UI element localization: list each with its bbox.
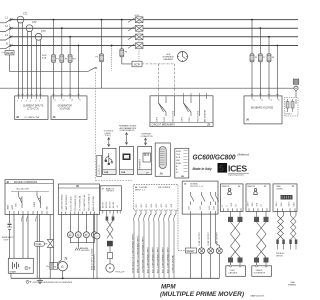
svg-text:MPM: MPM bbox=[161, 284, 176, 291]
wire busbar N bbox=[276, 46, 278, 96]
svg-text:JK: JK bbox=[76, 185, 79, 188]
wire optional boundary dash horizontal bbox=[96, 180, 134, 182]
incomer N bbox=[0, 46, 11, 49]
svg-text:INP.1: INP.1 bbox=[136, 204, 138, 208]
svg-text:INPUTS: INPUTS bbox=[107, 191, 115, 193]
relay contact MCB bbox=[184, 99, 200, 116]
arrow USB device bbox=[108, 138, 110, 147]
svg-text:L2: L2 bbox=[63, 100, 65, 102]
twisted pair pmcb left bbox=[276, 212, 285, 258]
RESET box bbox=[178, 210, 197, 278]
incomer L2 bbox=[0, 28, 11, 31]
svg-text:L1: L1 bbox=[253, 100, 255, 102]
MECB breaker box bbox=[2, 24, 15, 55]
wire F5 drop to SCR bbox=[122, 20, 132, 64]
node L1 tap F5 bbox=[121, 19, 123, 21]
svg-text:DIGITAL: DIGITAL bbox=[140, 186, 149, 189]
generator G circle bbox=[58, 258, 67, 279]
svg-text:0.5A: 0.5A bbox=[42, 56, 47, 59]
svg-text:STOP: STOP bbox=[4, 239, 10, 241]
wire sensor drops bbox=[70, 215, 94, 232]
svg-text:G: G bbox=[61, 265, 64, 269]
svg-text:C.T. RATIO /5A: C.T. RATIO /5A bbox=[24, 116, 39, 119]
wire busbar L1 bbox=[251, 20, 253, 96]
svg-text:L2: L2 bbox=[261, 100, 263, 102]
svg-text:*: * bbox=[27, 281, 28, 284]
aux supply tap box bbox=[293, 79, 299, 84]
svg-text:CT1: CT1 bbox=[23, 13, 28, 16]
arrow ethernet bbox=[144, 138, 146, 145]
svg-text:ENGINE COMMANDS: ENGINE COMMANDS bbox=[14, 181, 38, 184]
svg-text:AUX. CONFIGURABLE INPUT: AUX. CONFIGURABLE INPUT bbox=[156, 246, 159, 273]
svg-text:RS232: RS232 bbox=[176, 151, 181, 153]
connector J5 DIGITAL OUTPUT box bbox=[182, 181, 219, 214]
node L2 tap busbar bbox=[260, 27, 262, 29]
connector J1 thin supply box bbox=[97, 155, 102, 176]
fuse F8 bbox=[267, 54, 271, 62]
svg-text:START: START bbox=[33, 202, 36, 207]
current transformer CT1 bbox=[17, 13, 28, 23]
svg-text:VOLTAGE: VOLTAGE bbox=[60, 107, 71, 110]
svg-text:MCB CLOSED: MCB CLOSED bbox=[197, 110, 199, 122]
svg-text:ICES: ICES bbox=[228, 163, 247, 173]
svg-text:REMOTE START (CONFIGURABLE INP: REMOTE START (CONFIGURABLE INPUT) bbox=[136, 235, 139, 273]
wire F4 drop bbox=[101, 20, 103, 89]
engine ground symbol bbox=[75, 248, 81, 251]
node L1 tap F4 bbox=[101, 19, 103, 21]
wire gen V N bbox=[78, 46, 80, 96]
svg-text:CONNECTION: CONNECTION bbox=[141, 136, 154, 138]
svg-text:*: * bbox=[26, 266, 27, 270]
label optional note bbox=[26, 280, 73, 284]
pin ticks row1 boxes bbox=[17, 93, 278, 96]
svg-text:CONFIGURATION: CONFIGURATION bbox=[120, 129, 136, 132]
current transformer CT2 bbox=[26, 21, 37, 31]
wire gen V L1 bbox=[53, 20, 55, 96]
logo SICES bbox=[218, 163, 250, 177]
wire linkage dash bbox=[111, 46, 113, 71]
svg-text:BREAKER: BREAKER bbox=[164, 58, 174, 61]
svg-text:FUEL: FUEL bbox=[36, 243, 43, 246]
node N dot linkage bbox=[111, 45, 113, 47]
wire analog input drop bbox=[90, 214, 93, 279]
pickup chain bbox=[106, 214, 125, 274]
svg-text:T: T bbox=[29, 267, 31, 271]
svg-text:L1: L1 bbox=[54, 100, 56, 102]
connector JX CAN J1939 box bbox=[273, 184, 297, 212]
connector J7 ANALOG INPUTS box bbox=[100, 186, 121, 214]
fuse F5 bbox=[120, 49, 124, 57]
svg-text:1: 1 bbox=[17, 101, 18, 103]
ground symbol main bbox=[37, 278, 43, 283]
svg-text:FUEL LEVEL ANALOG: FUEL LEVEL ANALOG bbox=[87, 193, 90, 211]
wire gen V L2 bbox=[61, 28, 63, 96]
node N tap busbar bbox=[276, 45, 278, 47]
svg-text:COM 1: COM 1 bbox=[164, 117, 166, 122]
svg-text:SCR: SCR bbox=[134, 63, 141, 67]
sensor senders circles bbox=[67, 232, 97, 238]
svg-text:INP.2: INP.2 bbox=[141, 204, 143, 208]
svg-text:DIGITAL: DIGITAL bbox=[190, 183, 199, 186]
fuse F1 bbox=[51, 55, 55, 63]
wire SCR dashdot to breaker coils bbox=[142, 63, 174, 65]
svg-text:SUPPLY J1: SUPPLY J1 bbox=[99, 165, 101, 174]
connector JXA USB host box bbox=[120, 147, 134, 175]
svg-text:CURRENT INPUTS: CURRENT INPUTS bbox=[23, 106, 44, 108]
svg-text:MODE SELECTOR (CONFIGURABLE IN: MODE SELECTOR (CONFIGURABLE INPUT) bbox=[131, 233, 134, 273]
svg-text:UNIT: UNIT bbox=[230, 270, 235, 272]
svg-text:(CT1÷CT3): (CT1÷CT3) bbox=[27, 107, 39, 110]
svg-text:CIRCUIT BREAKERS: CIRCUIT BREAKERS bbox=[152, 124, 176, 127]
rotated digital input labels bbox=[131, 233, 174, 273]
svg-text:OUT1: OUT1 bbox=[189, 206, 191, 210]
connector JA serial DB9 box bbox=[155, 143, 170, 176]
svg-text:PORT): PORT) bbox=[105, 135, 111, 137]
connector J6 BUSBARS VOLTAGE box bbox=[244, 96, 282, 124]
wire MECB to rail bbox=[9, 55, 11, 71]
emergency stop button bbox=[2, 215, 14, 259]
svg-text:Made in Italy: Made in Italy bbox=[193, 167, 212, 171]
svg-text:CONF. OUTPUT: CONF. OUTPUT bbox=[208, 231, 210, 246]
svg-text:ETHERNET: ETHERNET bbox=[140, 158, 142, 170]
svg-text:OIL PRESSURE (CONFIGURABLE INP: OIL PRESSURE (CONFIGURABLE INPUT) bbox=[141, 236, 144, 273]
starter motor M box bbox=[46, 215, 58, 270]
wire long rail y88 bbox=[0, 87, 294, 89]
svg-text:EAAP1020XXX: EAAP1020XXX bbox=[251, 295, 265, 298]
svg-text:OPTIONAL DEPENDING ON ECU FEAT: OPTIONAL DEPENDING ON ECU FEATURES bbox=[33, 281, 73, 284]
battery supply dashed box bbox=[284, 98, 298, 117]
switch AY on rail bbox=[88, 68, 96, 72]
svg-text:OIL PRESSURE AN.: OIL PRESSURE AN. bbox=[78, 195, 81, 211]
fuse F4 bbox=[99, 54, 103, 62]
label ETHERNET CONNECTION bbox=[141, 134, 154, 138]
svg-text:GROUND: GROUND bbox=[81, 250, 90, 252]
svg-text:COMMON GROUND: COMMON GROUND bbox=[172, 255, 174, 273]
connector JY ethernet box bbox=[138, 147, 152, 175]
svg-text:OUT2: OUT2 bbox=[200, 206, 202, 210]
fuse F6 bbox=[250, 54, 254, 62]
wire plug to battery box bbox=[295, 90, 297, 97]
twisted pair pmcb right bbox=[288, 212, 297, 287]
connector J2 ENGINE COMMANDS box bbox=[5, 180, 53, 215]
fuse F3 bbox=[68, 55, 72, 63]
svg-text:N: N bbox=[6, 42, 8, 46]
svg-text:REMOTE: REMOTE bbox=[222, 186, 230, 188]
wires CT secondaries to J8 bbox=[19, 23, 41, 96]
svg-text:5: 5 bbox=[35, 101, 36, 103]
svg-text:JXA: JXA bbox=[121, 171, 126, 174]
svg-text:OUT3: OUT3 bbox=[209, 206, 211, 210]
svg-text:SHARING: SHARING bbox=[288, 283, 297, 286]
svg-text:START: START bbox=[10, 270, 18, 273]
start battery box bbox=[8, 258, 33, 273]
svg-text:L3: L3 bbox=[270, 100, 272, 102]
svg-text:CT3: CT3 bbox=[41, 30, 46, 33]
svg-text:SPEED: SPEED bbox=[256, 270, 263, 272]
wire J2 pins down bbox=[14, 215, 50, 279]
svg-text:2: 2 bbox=[21, 101, 22, 103]
svg-text:B: B bbox=[227, 205, 229, 206]
connector JB RS485 box bbox=[175, 148, 189, 178]
aux supply plug circle bbox=[294, 86, 298, 90]
svg-text:OUT 1: OUT 1 bbox=[157, 117, 159, 122]
svg-text:- BATT. REFERENCE: - BATT. REFERENCE bbox=[65, 194, 68, 211]
svg-text:INP.4: INP.4 bbox=[151, 204, 153, 208]
label TO DEVICE USB PORT bbox=[104, 131, 114, 138]
svg-text:(MULTIPLE PRIME MOVER): (MULTIPLE PRIME MOVER) bbox=[160, 291, 244, 298]
wire busbar L2 bbox=[259, 28, 261, 96]
node L2 tap bbox=[61, 27, 63, 29]
svg-text:ANALOG INPUT (4-20mA): ANALOG INPUT (4-20mA) bbox=[90, 248, 93, 270]
svg-text:GOVERNOR: GOVERNOR bbox=[254, 273, 266, 275]
incomer L3 bbox=[0, 37, 11, 40]
svg-text:L3: L3 bbox=[71, 100, 73, 102]
current transformer CT3 bbox=[35, 30, 46, 40]
rotated output labels bbox=[199, 231, 219, 246]
wire gen V L3 bbox=[69, 37, 71, 96]
node L3 tap bbox=[69, 36, 71, 38]
node L1 tap gen-voltage bbox=[53, 19, 55, 21]
wire optional boundary dash vertical bbox=[95, 72, 97, 181]
svg-text:OUTPUT 1..4: OUTPUT 1..4 bbox=[190, 186, 203, 188]
svg-text:M: M bbox=[54, 266, 56, 268]
wire analog sensor drop bbox=[93, 214, 100, 279]
FUEL solenoid label bbox=[34, 242, 47, 247]
svg-text:+ BATT. REFERENCE: + BATT. REFERENCE bbox=[60, 193, 63, 211]
svg-text:AUX. CONFIGURABLE INPUT: AUX. CONFIGURABLE INPUT bbox=[166, 246, 169, 273]
svg-text:F7: F7 bbox=[263, 57, 265, 59]
connector JXB USB device box bbox=[103, 148, 116, 174]
svg-text:-BATT.: -BATT. bbox=[11, 204, 14, 210]
svg-text:4: 4 bbox=[30, 101, 31, 103]
svg-text:GENERATOR: GENERATOR bbox=[58, 105, 73, 108]
node L1 tap busbar bbox=[251, 19, 253, 21]
relay K fuel bbox=[19, 192, 23, 209]
svg-text:AUX. CONFIGURABLE INPUT: AUX. CONFIGURABLE INPUT bbox=[146, 246, 149, 273]
label FIRMWARE UPDATE bbox=[119, 125, 137, 133]
SCR box bbox=[132, 61, 142, 67]
svg-text:engineering solutions: engineering solutions bbox=[228, 174, 244, 177]
svg-text:GCB: GCB bbox=[135, 15, 140, 17]
svg-text:OUT4: OUT4 bbox=[214, 206, 216, 210]
svg-text:D+ (W.L.) 15V AUX: D+ (W.L.) 15V AUX bbox=[69, 196, 72, 211]
wire JK pin to bus bbox=[60, 215, 62, 260]
wire start box to bus bbox=[10, 273, 12, 278]
svg-text:INP.7: INP.7 bbox=[166, 204, 168, 208]
svg-text:3: 3 bbox=[26, 101, 27, 103]
node N tap bbox=[78, 45, 80, 47]
connector JM REMOTE box2 bbox=[246, 184, 270, 212]
twisted pair speed governor bbox=[252, 212, 272, 277]
svg-text:CONF. OUTPUT: CONF. OUTPUT bbox=[217, 231, 219, 246]
node L3 tap busbar bbox=[268, 36, 270, 38]
switch glyphs on engine wires bbox=[21, 216, 37, 222]
svg-text:Max 2A / 30V: Max 2A / 30V bbox=[17, 188, 30, 191]
svg-text:6: 6 bbox=[39, 101, 40, 103]
svg-text:JB: JB bbox=[181, 176, 184, 178]
digital input wires with switches bbox=[134, 210, 176, 278]
svg-text:OUT 2: OUT 2 bbox=[182, 117, 184, 122]
wire busbar L3 bbox=[268, 37, 270, 96]
timer clock icon bbox=[178, 52, 188, 62]
wire N bus bbox=[10, 45, 298, 47]
svg-text:COOLANT TEMP. AN.: COOLANT TEMP. AN. bbox=[83, 194, 86, 211]
svg-text:+BATT.: +BATT. bbox=[7, 204, 10, 210]
svg-text:w: w bbox=[69, 234, 71, 237]
svg-text:GCB CLOSED: GCB CLOSED bbox=[172, 110, 174, 122]
svg-text:RESET: RESET bbox=[187, 250, 196, 253]
svg-text:12/24 V: 12/24 V bbox=[285, 114, 292, 116]
fuse F7 bbox=[258, 54, 262, 62]
svg-text:(Mains): (Mains) bbox=[238, 153, 250, 157]
relay K start bbox=[37, 192, 41, 209]
relay contact GCB bbox=[159, 99, 175, 116]
arrow firmware bbox=[125, 133, 127, 145]
svg-text:ANALOG GROUND: ANALOG GROUND bbox=[92, 195, 95, 211]
connector J4 DIGITAL INPUT dashed box bbox=[134, 185, 179, 210]
svg-text:INP.3: INP.3 bbox=[146, 204, 148, 208]
svg-text:(J1939): (J1939) bbox=[276, 188, 283, 190]
svg-text:INP.6: INP.6 bbox=[161, 204, 163, 208]
svg-text:GND COMMON: GND COMMON bbox=[158, 187, 171, 189]
svg-text:AUX. CONFIGURABLE INPUT: AUX. CONFIGURABLE INPUT bbox=[151, 246, 154, 273]
wire bottom bus bbox=[11, 277, 219, 279]
fuel valve bbox=[47, 240, 53, 248]
svg-text:JA: JA bbox=[160, 172, 163, 176]
fuse F2 bbox=[60, 55, 64, 63]
svg-text:CONF. OUTPUT: CONF. OUTPUT bbox=[199, 231, 201, 246]
svg-text:DEVICE: DEVICE bbox=[276, 255, 283, 257]
incomer L1 bbox=[0, 18, 12, 48]
connector J8b REMOTE PANEL box bbox=[221, 184, 244, 212]
svg-text:INP.5: INP.5 bbox=[156, 204, 158, 208]
J2 pins bbox=[10, 211, 48, 215]
svg-text:A +: A + bbox=[176, 165, 179, 168]
svg-text:BUSBARS VOLTAGE: BUSBARS VOLTAGE bbox=[251, 107, 274, 110]
twisted pair CAN bus bbox=[226, 212, 246, 277]
svg-text:5: 5 bbox=[219, 163, 224, 173]
svg-text:F8: F8 bbox=[272, 57, 274, 59]
wire L2 bus bbox=[10, 27, 298, 29]
svg-text:RS485: RS485 bbox=[176, 163, 181, 165]
connector J3 CIRCUIT BREAKERS box bbox=[150, 96, 213, 127]
relay contacts out1-4 bbox=[191, 192, 219, 205]
svg-text:PICK-UP: PICK-UP bbox=[116, 272, 125, 274]
svg-text:AUX. CONFIGURABLE INPUT: AUX. CONFIGURABLE INPUT bbox=[161, 246, 164, 273]
GCB 4-pole breaker block bbox=[128, 17, 143, 49]
wire breaker linkage dash bbox=[138, 23, 140, 61]
svg-text:REMOTE: REMOTE bbox=[247, 186, 255, 188]
svg-text:CAN BUS: CAN BUS bbox=[228, 272, 238, 275]
wire rail y71 bbox=[9, 70, 88, 72]
svg-text:MECB: MECB bbox=[6, 51, 14, 55]
svg-text:COM 2: COM 2 bbox=[189, 117, 191, 122]
wire sensors to engine ground bbox=[70, 238, 94, 248]
svg-text:FUEL: FUEL bbox=[16, 203, 18, 207]
svg-text:CT2: CT2 bbox=[32, 21, 37, 24]
svg-text:F6: F6 bbox=[255, 57, 257, 59]
lamp outputs bbox=[199, 214, 223, 278]
pin labels rotated bbox=[157, 109, 207, 122]
svg-text:GC600/GC800: GC600/GC800 bbox=[193, 153, 237, 162]
svg-text:JXB: JXB bbox=[104, 172, 109, 174]
svg-text:RPM MEASURE (W): RPM MEASURE (W) bbox=[74, 195, 77, 211]
svg-text:BAT. GENERAT.: BAT. GENERAT. bbox=[204, 109, 207, 122]
wire L3 bus bbox=[10, 36, 298, 38]
connector J8 CURRENT INPUTS box bbox=[15, 96, 48, 120]
wire L1 bus bbox=[10, 19, 298, 21]
connector J9 GENERATOR VOLTAGE box bbox=[51, 96, 87, 120]
connector JK engine sensors box bbox=[58, 184, 99, 215]
svg-text:INPUT 1..7: INPUT 1..7 bbox=[135, 190, 146, 192]
